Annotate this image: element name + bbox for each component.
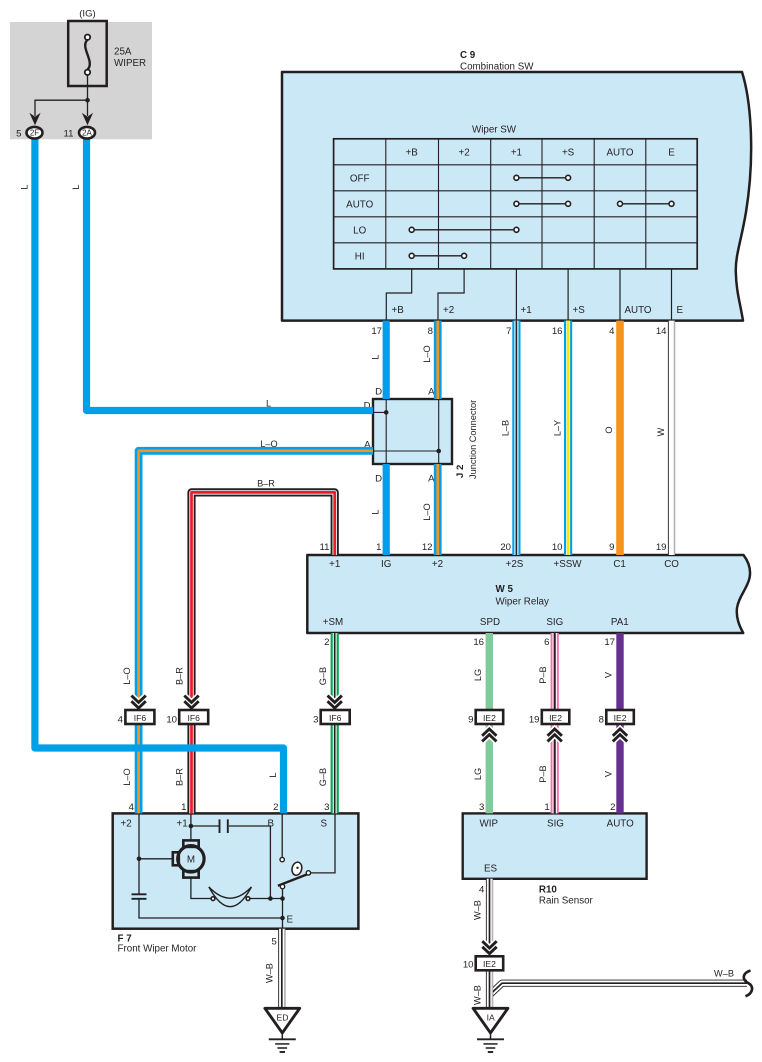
- svg-text:P–B: P–B: [538, 666, 548, 683]
- wire L J2 to relay IG pin1: [383, 464, 390, 555]
- wire W-B motor E pin5 to ED ground: [278, 929, 285, 1009]
- svg-text:LO: LO: [353, 225, 366, 236]
- svg-text:3: 3: [324, 802, 329, 813]
- motor +2 junction dot: [137, 857, 142, 862]
- wire L from fuse 2A to J2 D: [87, 137, 374, 411]
- svg-text:16: 16: [552, 326, 563, 337]
- svg-text:IF6: IF6: [134, 713, 147, 723]
- svg-text:+2: +2: [443, 305, 454, 316]
- W-B rain wire light right edge: [491, 879, 493, 1008]
- svg-text:(IG): (IG): [79, 9, 96, 20]
- motor bottom brush: [183, 871, 198, 878]
- svg-text:+1: +1: [329, 559, 340, 570]
- motor +1 internal lead: [190, 813, 192, 840]
- svg-text:4: 4: [129, 802, 135, 813]
- wire capacitor to E node: [139, 899, 283, 918]
- svg-text:14: 14: [656, 326, 667, 337]
- svg-text:M: M: [187, 855, 195, 866]
- wire L from fuse 2F to motor B: [35, 137, 284, 813]
- chevron arrows up into IE2 pin19: [548, 729, 562, 741]
- svg-text:IE2: IE2: [614, 713, 627, 723]
- wire W-B branch from right with break: [490, 983, 747, 994]
- svg-text:2: 2: [273, 802, 278, 813]
- junction dot common: [280, 896, 285, 901]
- chevron arrows into IF6 pin4: [131, 696, 145, 708]
- fuse terminal circle top: [85, 35, 90, 40]
- svg-text:IF6: IF6: [187, 713, 200, 723]
- wire motor bottom to cam: [191, 878, 211, 899]
- connector IE2 pin9: [476, 710, 504, 724]
- svg-text:+2: +2: [121, 819, 132, 830]
- wire W-B rain sensor ES pin4 to IA ground: [486, 879, 493, 1009]
- lever contact circle: [280, 884, 284, 888]
- ED ground symbol: [269, 1038, 296, 1040]
- svg-text:9: 9: [468, 715, 473, 726]
- fuse terminal circle bottom: [85, 70, 90, 75]
- svg-text:W: W: [656, 427, 666, 436]
- svg-text:10: 10: [166, 715, 177, 726]
- svg-text:Wiper SW: Wiper SW: [472, 125, 517, 136]
- wire O combination SW pin4 to relay C1 pin9: [616, 321, 624, 555]
- svg-text:V: V: [604, 770, 614, 777]
- svg-text:Combination SW: Combination SW: [460, 62, 534, 73]
- svg-text:+S: +S: [562, 148, 575, 159]
- wire L-B combination SW pin7 to relay +2S pin20: [512, 321, 520, 555]
- wire L-O J2 A to IF6 and motor +2: [139, 451, 373, 814]
- svg-text:+S: +S: [573, 305, 586, 316]
- svg-text:B–R: B–R: [257, 479, 275, 489]
- connector IE2 pin8: [606, 710, 634, 724]
- svg-text:4: 4: [609, 326, 615, 337]
- svg-text:6: 6: [544, 637, 549, 648]
- svg-text:2: 2: [324, 637, 329, 648]
- svg-text:10: 10: [552, 542, 563, 553]
- wire L-Y combination SW pin16 to relay +SSW pin10: [564, 321, 572, 555]
- connector IF6 pin4: [125, 710, 154, 724]
- svg-text:+SSW: +SSW: [553, 559, 582, 570]
- svg-text:L–O: L–O: [122, 768, 132, 785]
- svg-text:D: D: [375, 387, 382, 398]
- svg-text:+2S: +2S: [506, 559, 524, 570]
- svg-text:ED: ED: [277, 1013, 289, 1023]
- svg-text:HI: HI: [355, 251, 365, 262]
- svg-text:Junction Connector: Junction Connector: [468, 400, 478, 479]
- chevron arrows into IF6 pin3: [328, 696, 342, 708]
- svg-text:G–B: G–B: [318, 667, 328, 685]
- fuse rectangle: [68, 21, 107, 86]
- capacitor C (top): [220, 819, 228, 833]
- svg-text:L–O: L–O: [122, 667, 132, 684]
- contact OFF row +1 to +S: [519, 177, 566, 179]
- wire +1 node to capacitor: [191, 825, 219, 827]
- arrowhead into 2A: [82, 113, 93, 125]
- svg-text:SPD: SPD: [480, 617, 500, 628]
- svg-text:11: 11: [320, 542, 330, 553]
- svg-text:19: 19: [529, 715, 540, 726]
- W wire light right edge: [673, 321, 675, 555]
- svg-text:+2: +2: [459, 148, 470, 159]
- svg-text:+1: +1: [177, 819, 188, 830]
- svg-text:IA: IA: [487, 1013, 495, 1023]
- svg-text:+SM: +SM: [323, 617, 343, 628]
- svg-text:CO: CO: [664, 559, 679, 570]
- svg-text:O: O: [604, 426, 614, 433]
- cam follower circle right: [246, 897, 250, 901]
- ED ground stem: [281, 1033, 283, 1039]
- switch lever: [278, 874, 307, 885]
- W-B motor wire light right edge: [284, 929, 286, 1008]
- svg-text:C 9: C 9: [460, 50, 476, 61]
- svg-text:AUTO: AUTO: [346, 199, 373, 210]
- svg-text:L: L: [371, 354, 381, 359]
- svg-text:L: L: [266, 399, 271, 409]
- svg-text:2: 2: [610, 802, 615, 813]
- svg-text:16: 16: [473, 637, 484, 648]
- wire capacitor to B branch: [229, 826, 271, 899]
- svg-text:Front Wiper Motor: Front Wiper Motor: [118, 944, 198, 955]
- svg-text:2A: 2A: [82, 129, 92, 138]
- svg-text:S: S: [321, 819, 328, 830]
- svg-text:AUTO: AUTO: [625, 305, 652, 316]
- ground triangle IA: [473, 1008, 508, 1033]
- internal lead +S: [567, 269, 569, 320]
- svg-text:25A: 25A: [114, 47, 132, 58]
- contact LO row +B to +1: [414, 229, 514, 231]
- connector IE2 pin19: [542, 710, 570, 724]
- svg-text:1: 1: [181, 802, 186, 813]
- svg-text:+1: +1: [511, 148, 522, 159]
- svg-text:17: 17: [604, 637, 615, 648]
- svg-text:L–Y: L–Y: [552, 420, 562, 436]
- svg-text:Rain Sensor: Rain Sensor: [539, 896, 594, 907]
- svg-text:7: 7: [506, 326, 511, 337]
- connector oval 2A: [79, 127, 95, 139]
- svg-text:10: 10: [463, 959, 474, 970]
- svg-text:IE2: IE2: [549, 713, 562, 723]
- internal lead +1: [515, 269, 517, 320]
- svg-text:OFF: OFF: [350, 173, 370, 184]
- contact AUTO row +1 to +S: [519, 203, 566, 205]
- svg-text:W–B: W–B: [714, 969, 734, 979]
- chevron arrows up into IE2 pin9: [482, 729, 496, 741]
- wire cam to junction: [250, 898, 283, 900]
- junction dot E: [280, 916, 285, 921]
- svg-text:20: 20: [500, 542, 511, 553]
- table column lines: [386, 139, 646, 269]
- wire L-O combination SW pin8 to J2 A: [434, 321, 442, 399]
- svg-text:5: 5: [271, 937, 276, 948]
- svg-text:19: 19: [656, 542, 667, 553]
- svg-text:LG: LG: [473, 768, 483, 780]
- svg-text:L–O: L–O: [260, 439, 277, 449]
- svg-text:E: E: [668, 148, 675, 159]
- wire from fuse to junction: [87, 75, 89, 116]
- wiper SW table outer border: [334, 139, 698, 269]
- motor top brush: [183, 840, 198, 847]
- svg-text:AUTO: AUTO: [606, 148, 633, 159]
- svg-text:L–B: L–B: [501, 420, 511, 436]
- J2 internal line A: [373, 399, 439, 464]
- switch pivot oval: [291, 861, 304, 876]
- svg-text:LG: LG: [473, 669, 483, 681]
- table row lines: [334, 165, 698, 243]
- svg-text:L: L: [71, 184, 81, 189]
- contact AUTO row AUTO to E: [622, 203, 669, 205]
- svg-text:+1: +1: [521, 305, 532, 316]
- cam crescent: [209, 887, 252, 907]
- motor +2 internal lead: [138, 813, 140, 894]
- svg-text:ES: ES: [484, 864, 498, 875]
- svg-text:B–R: B–R: [175, 667, 185, 685]
- internal lead +2 with jog: [438, 269, 464, 320]
- J2 internal line D: [373, 399, 386, 464]
- svg-text:V: V: [604, 671, 614, 678]
- B contact circle: [280, 857, 284, 861]
- wiper relay W5 box: [307, 555, 750, 633]
- svg-text:SIG: SIG: [546, 617, 563, 628]
- junction dot: [85, 98, 90, 103]
- fuse block gray box: [10, 22, 152, 139]
- IA ground stem: [490, 1033, 492, 1039]
- svg-text:IE2: IE2: [483, 959, 496, 969]
- front wiper motor F7 box: [113, 813, 359, 928]
- chevron arrows into IF6 pin10: [184, 696, 198, 708]
- cam follower circle left: [211, 897, 215, 901]
- wire lever to common node: [282, 889, 284, 929]
- svg-text:1: 1: [376, 542, 381, 553]
- wire S contact to S pin: [311, 813, 335, 873]
- svg-text:4: 4: [118, 715, 124, 726]
- wire W combination SW pin14 to relay CO pin19: [668, 321, 675, 555]
- svg-text:W 5: W 5: [496, 584, 514, 595]
- svg-text:8: 8: [428, 326, 433, 337]
- svg-text:J 2: J 2: [455, 465, 466, 478]
- svg-text:P–B: P–B: [538, 765, 548, 782]
- svg-text:3: 3: [479, 802, 484, 813]
- svg-text:17: 17: [371, 326, 382, 337]
- ground triangle ED: [265, 1008, 300, 1033]
- svg-text:9: 9: [609, 542, 614, 553]
- svg-text:W–B: W–B: [264, 963, 274, 983]
- motor B internal lead: [281, 813, 283, 857]
- svg-text:R10: R10: [539, 885, 558, 896]
- chevron arrows into IE2 pin10: [482, 941, 496, 953]
- junction connector J2 box: [373, 399, 452, 464]
- wire P-B relay SIG pin6 to rain sensor SIG: [551, 633, 559, 813]
- motor +1 junction dot: [189, 824, 194, 829]
- svg-text:W–B: W–B: [472, 985, 482, 1005]
- wire L-O J2 to relay +2 pin12: [434, 464, 442, 555]
- svg-text:1: 1: [544, 802, 549, 813]
- svg-text:Wiper Relay: Wiper Relay: [496, 597, 549, 608]
- J2 junction dot D: [384, 410, 389, 415]
- rain sensor R10 box: [463, 813, 647, 878]
- wire L combination SW pin17 to J2: [383, 321, 390, 399]
- connector oval 2F: [27, 127, 43, 139]
- chevron arrows up into IE2 pin8: [613, 729, 627, 741]
- wire B-R relay +1 pin11 loop to IF6 and motor +1: [192, 492, 335, 813]
- svg-text:W–B: W–B: [472, 900, 482, 920]
- svg-text:B–R: B–R: [175, 768, 185, 786]
- svg-text:IE2: IE2: [483, 713, 496, 723]
- internal lead E: [671, 269, 673, 320]
- svg-text:WIP: WIP: [480, 819, 499, 830]
- svg-text:8: 8: [599, 715, 604, 726]
- fuse element S-curve: [85, 40, 90, 70]
- connector IF6 pin3: [321, 710, 350, 724]
- break symbol: [744, 971, 752, 997]
- wire branch to 2F: [35, 100, 88, 116]
- connector IE2 pin10: [476, 956, 504, 970]
- svg-text:2F: 2F: [30, 129, 39, 138]
- svg-text:L–O: L–O: [422, 345, 432, 362]
- capacitor C (left): [132, 894, 147, 899]
- combination switch box C9: [282, 72, 751, 321]
- svg-text:+B: +B: [392, 305, 405, 316]
- svg-text:PA1: PA1: [611, 617, 629, 628]
- svg-text:C1: C1: [613, 559, 626, 570]
- svg-text:IF6: IF6: [329, 713, 342, 723]
- svg-text:AUTO: AUTO: [607, 819, 634, 830]
- svg-text:L: L: [268, 772, 278, 777]
- svg-text:+2: +2: [432, 559, 443, 570]
- S contact circle: [306, 871, 310, 875]
- svg-text:L: L: [371, 509, 381, 514]
- wire +2 node to brush: [139, 858, 173, 860]
- svg-text:+B: +B: [406, 148, 419, 159]
- svg-text:11: 11: [64, 128, 74, 139]
- svg-text:G–B: G–B: [318, 768, 328, 786]
- connector IF6 pin10: [179, 710, 208, 724]
- wire LG relay SPD pin16 to rain sensor WIP: [486, 633, 493, 813]
- wire V relay PA1 pin17 to rain sensor AUTO: [616, 633, 623, 813]
- arrowhead into 2F: [29, 113, 40, 125]
- motor M circle: [178, 846, 204, 872]
- pivot dot: [296, 867, 298, 869]
- wire G-B relay +SM pin2 to IF6 and motor S: [331, 633, 339, 813]
- svg-text:4: 4: [479, 885, 485, 896]
- svg-text:5: 5: [16, 128, 21, 139]
- motor left brush: [173, 852, 179, 865]
- internal lead +B with jog: [386, 269, 411, 320]
- svg-text:E: E: [287, 915, 294, 926]
- svg-text:12: 12: [422, 542, 433, 553]
- svg-text:WIPER: WIPER: [114, 58, 146, 69]
- IA ground symbol: [477, 1038, 504, 1040]
- svg-text:L: L: [19, 184, 29, 189]
- svg-text:SIG: SIG: [547, 819, 564, 830]
- J2 junction dot A: [436, 449, 441, 454]
- svg-text:D: D: [375, 474, 382, 485]
- contact HI row +B to +2: [414, 255, 462, 257]
- svg-text:L–O: L–O: [422, 503, 432, 520]
- svg-text:E: E: [677, 305, 684, 316]
- internal lead AUTO: [619, 269, 621, 320]
- svg-text:3: 3: [313, 715, 318, 726]
- junction dot cam line left: [268, 896, 273, 901]
- svg-text:IG: IG: [381, 559, 391, 570]
